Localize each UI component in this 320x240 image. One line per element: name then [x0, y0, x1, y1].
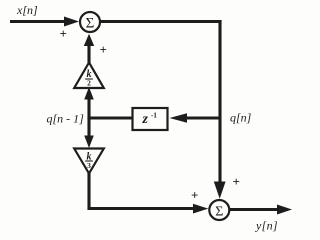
summer U1 (top adder): [80, 12, 100, 32]
arrowhead into summer1 left: [64, 17, 79, 27]
svg-text:q[n]: q[n]: [230, 111, 252, 125]
svg-text:2: 2: [87, 79, 91, 88]
wire summer2 output: [229, 208, 281, 211]
arrowhead up into k/2 base: [84, 87, 94, 100]
arrowhead left into z-1 right side: [170, 113, 188, 123]
svg-text:y[n]: y[n]: [255, 219, 278, 233]
svg-text:Σ: Σ: [86, 16, 95, 32]
svg-text:z: z: [142, 112, 149, 127]
svg-text:+: +: [233, 174, 240, 189]
svg-text:q[n - 1]: q[n - 1]: [47, 112, 85, 126]
arrowhead down into k/3 top: [84, 136, 94, 149]
gain triangle k/2: [74, 63, 104, 89]
svg-text:+: +: [191, 188, 198, 203]
wire input x[n]: [10, 20, 68, 23]
svg-text:+: +: [100, 42, 107, 57]
svg-text:x[n]: x[n]: [16, 3, 38, 17]
wire q[n-1] node up to k/2 triangle: [87, 97, 90, 120]
wire q[n] tap to z-1: [186, 116, 220, 119]
wire z-1 output to q[n-1] node: [88, 116, 132, 119]
svg-text:+: +: [60, 26, 67, 41]
arrowhead up into summer1 bottom: [84, 34, 94, 46]
arrowhead output y[n]: [277, 205, 292, 215]
svg-text:3: 3: [87, 161, 91, 170]
wire q[n-1] node down to k/3 triangle: [87, 118, 90, 138]
wire k/2 apex up to summer1: [87, 44, 90, 63]
wire vertical right q[n]: [218, 20, 221, 184]
arrowhead right into summer2 left: [193, 204, 208, 214]
svg-text:Σ: Σ: [215, 205, 223, 220]
gain triangle k/3 (inverted): [74, 149, 104, 174]
delay block z^-1: [133, 108, 168, 130]
wire summer1 to top-right corner: [101, 22, 221, 25]
svg-text:-1: -1: [151, 112, 157, 120]
wire k/3 apex down and right to summer2: [89, 172, 196, 209]
arrowhead down into summer2 top: [214, 182, 226, 199]
summer U2 (bottom adder): [209, 200, 229, 220]
